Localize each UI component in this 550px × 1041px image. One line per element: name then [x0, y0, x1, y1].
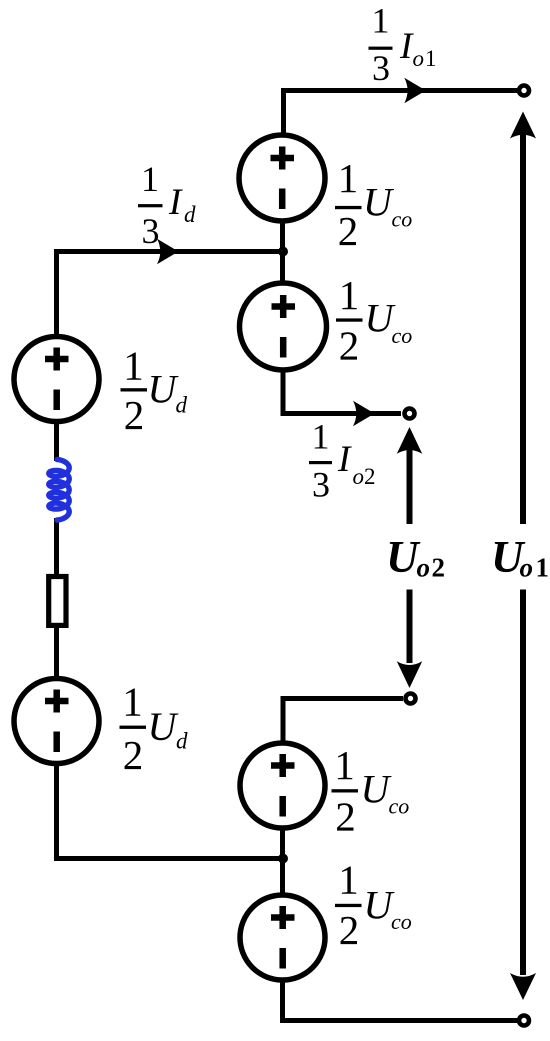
arrowhead Uo1 top (up)	[510, 112, 536, 139]
svg-text:co: co	[392, 207, 413, 232]
arrowhead Uo2 down	[397, 661, 422, 688]
voltage source U3 (1/2 Ud top-left)	[14, 337, 99, 422]
wire source 4 down to bottom-left corner	[54, 763, 283, 861]
svg-text:1: 1	[123, 343, 144, 389]
svg-text:o: o	[353, 464, 365, 489]
svg-text:o: o	[413, 46, 425, 71]
wire Uo2 lower terminal to source 5	[283, 696, 403, 744]
svg-text:co: co	[392, 323, 413, 348]
wire Uo1 upper shaft	[520, 132, 526, 524]
resistor R	[49, 577, 66, 626]
svg-text:2: 2	[364, 464, 376, 489]
wire Uo2 upper arrow shaft	[407, 448, 413, 524]
svg-text:d: d	[176, 729, 188, 754]
svg-text:2: 2	[339, 907, 360, 953]
label 1/3 Io2	[312, 417, 376, 505]
terminal node Io2	[405, 409, 415, 419]
wire resistor to source 4	[54, 627, 59, 679]
svg-text:U: U	[363, 180, 395, 225]
svg-text:1: 1	[338, 857, 359, 903]
svg-text:1: 1	[338, 155, 359, 201]
inductor L (blue coil)	[49, 460, 69, 521]
svg-text:o: o	[520, 553, 534, 583]
polarity marks U6	[271, 906, 295, 969]
arrowhead 1/3 Io1	[404, 78, 426, 103]
wire between source 5 and source 6	[280, 827, 285, 896]
label 1/2 Ud source 3	[123, 343, 187, 439]
svg-text:3: 3	[372, 48, 390, 88]
label 1/2 Uco source 6	[338, 857, 412, 954]
arrowhead Uo2 up	[397, 427, 422, 454]
svg-text:co: co	[389, 794, 410, 819]
wire source 3 to inductor	[54, 421, 59, 461]
svg-text:d: d	[184, 202, 196, 227]
junction node B	[278, 854, 288, 864]
wire left vertical to source 3	[54, 249, 59, 337]
wire 1/3 Id horizontal	[57, 249, 284, 254]
wire source 6 down to bottom-right terminal	[283, 979, 518, 1023]
svg-text:1: 1	[536, 553, 550, 583]
voltage source U1 (1/2 Uco top)	[14, 135, 327, 980]
label 1/2 Ud source 4	[122, 679, 188, 779]
polarity marks U3	[45, 348, 69, 411]
svg-text:2: 2	[432, 553, 446, 583]
terminal node top-right	[519, 86, 529, 96]
svg-text:d: d	[176, 393, 188, 418]
label 1/3 Id	[141, 159, 196, 251]
svg-text:I: I	[337, 439, 352, 480]
wire source 2 down to 1/3 Io2 terminal	[283, 369, 401, 416]
label 1/3 Io1	[372, 1, 437, 89]
svg-text:3: 3	[312, 465, 330, 505]
wire top vertical into source 1	[281, 88, 286, 136]
svg-text:2: 2	[338, 208, 359, 254]
wire Uo1 lower shaft	[520, 590, 526, 976]
svg-text:I: I	[168, 182, 183, 223]
svg-text:1: 1	[372, 1, 390, 41]
label 1/2 Uco source 5	[334, 742, 409, 840]
svg-text:2: 2	[124, 392, 145, 438]
svg-text:1: 1	[122, 679, 143, 725]
voltage source U6 (1/2 Uco fourth)	[240, 895, 325, 980]
svg-text:2: 2	[335, 794, 356, 840]
terminal node Uo2 lower	[406, 694, 416, 704]
svg-text:U: U	[148, 704, 180, 749]
label Uo2	[386, 532, 445, 583]
label 1/2 Uco source 2	[339, 272, 413, 369]
junction node A	[278, 247, 288, 257]
wire top horizontal to U_o1 terminal	[284, 88, 518, 93]
wire Uo2 lower arrow shaft	[407, 590, 413, 664]
wire between source 1 and source 2	[280, 220, 285, 284]
svg-text:3: 3	[142, 211, 160, 251]
voltage source U4 (1/2 Ud bottom-left)	[14, 679, 99, 764]
svg-text:1: 1	[141, 159, 159, 199]
svg-text:2: 2	[339, 323, 360, 369]
polarity marks U1	[45, 147, 295, 969]
arrowhead 1/3 Id	[157, 239, 179, 264]
terminal node bottom-right	[519, 1016, 529, 1026]
arrowhead 1/3 Io2	[353, 401, 375, 426]
wire inductor to resistor	[54, 518, 59, 574]
voltage source U5 (1/2 Uco third)	[240, 743, 325, 828]
svg-text:co: co	[391, 909, 412, 934]
polarity marks U5	[271, 754, 295, 817]
svg-text:1: 1	[334, 742, 355, 788]
svg-text:1: 1	[425, 46, 437, 71]
svg-text:1: 1	[339, 272, 360, 318]
label 1/2 Uco source 1	[338, 155, 413, 254]
arrowhead Uo1 bottom (down)	[510, 973, 536, 1000]
polarity marks U4	[45, 690, 69, 753]
svg-text:1: 1	[312, 417, 330, 457]
voltage source U2 (1/2 Uco second)	[240, 283, 327, 370]
svg-text:o: o	[417, 553, 431, 583]
svg-text:2: 2	[123, 732, 144, 778]
label Uo1	[491, 532, 549, 583]
polarity marks U2	[272, 295, 296, 358]
